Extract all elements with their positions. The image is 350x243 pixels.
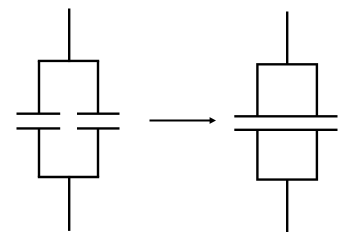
- wire: right branch upper segment: [97, 61, 99, 114]
- capacitor Ceq: [234, 116, 337, 130]
- capacitor C1: [17, 114, 61, 129]
- wire: top connection frame of equivalent capacitor: [257, 64, 317, 116]
- wire: bottom bus bar: [38, 176, 99, 178]
- wire: bottom connection frame of equivalent capacitor: [257, 130, 317, 180]
- wire: bottom lead of equivalent capacitor: [286, 179, 288, 233]
- wire: bottom lead of parallel pair: [68, 176, 70, 231]
- wire: top bus bar: [38, 60, 99, 62]
- wire: top lead of equivalent capacitor: [286, 12, 288, 66]
- equivalence arrow: [150, 117, 217, 124]
- capacitor C2: [77, 114, 120, 129]
- wire: left branch upper segment: [38, 61, 40, 114]
- wire: right branch lower segment: [97, 128, 99, 177]
- wire: left branch lower segment: [38, 128, 40, 177]
- wire: top lead of parallel pair: [68, 9, 70, 63]
